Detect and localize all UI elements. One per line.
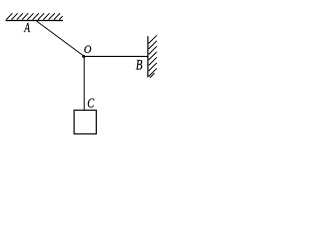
rod O-B (horizontal wire) — [84, 55, 148, 57]
ceiling surface line — [6, 20, 64, 22]
node O dot — [82, 55, 85, 58]
wall surface line — [147, 36, 149, 77]
rope A-O (diagonal wire) — [37, 21, 85, 56]
weight box C — [74, 110, 96, 134]
svg-text:C: C — [87, 95, 95, 111]
wall hatching — [149, 35, 157, 77]
string O-C (vertical wire) — [83, 57, 85, 111]
svg-text:A: A — [24, 19, 31, 35]
svg-text:O: O — [84, 44, 92, 57]
svg-text:B: B — [136, 57, 143, 73]
ceiling hatching — [6, 13, 62, 19]
